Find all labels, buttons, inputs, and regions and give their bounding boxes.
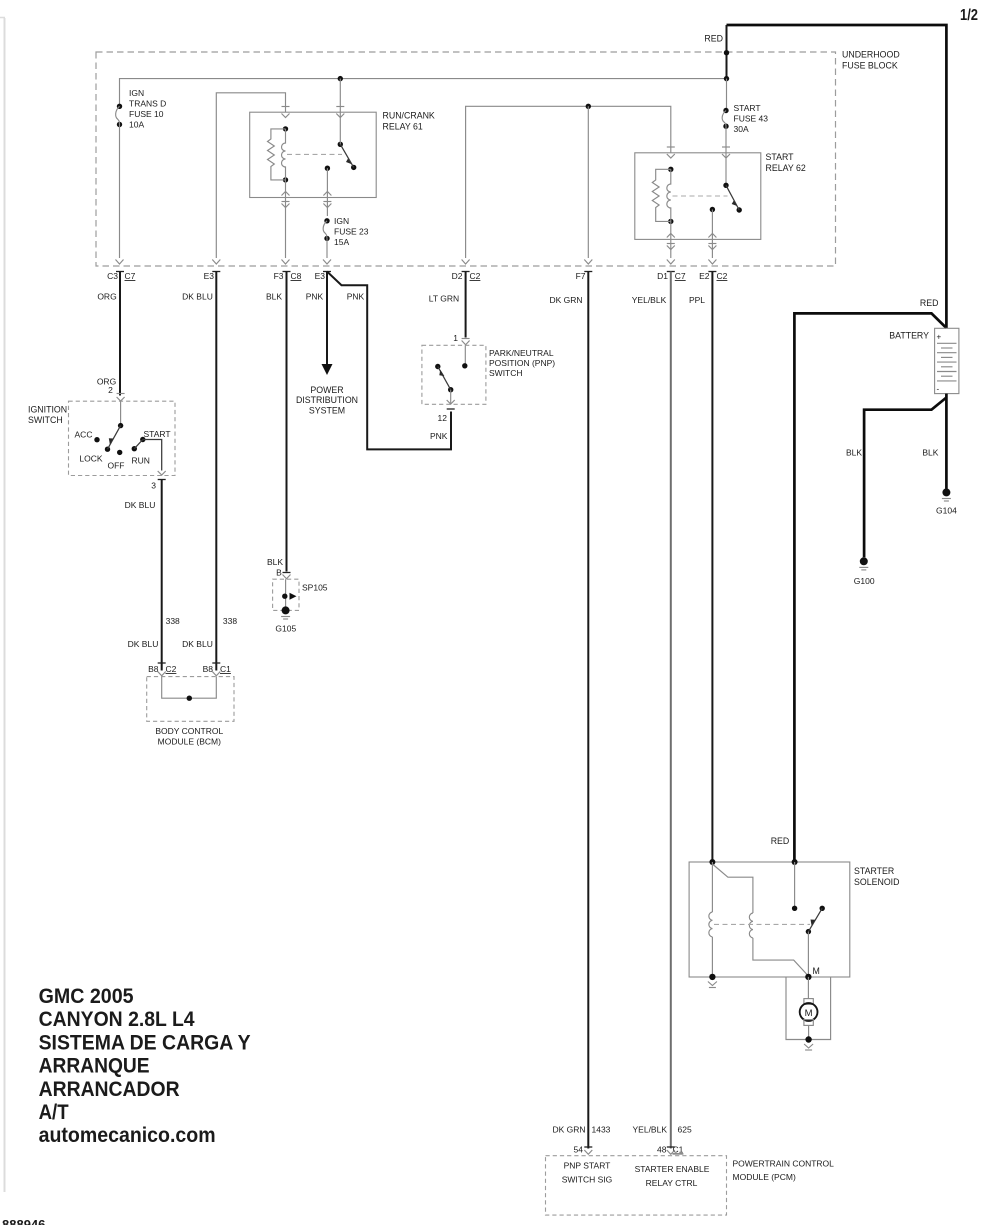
svg-text:FUSE BLOCK: FUSE BLOCK: [842, 61, 898, 71]
svg-text:625: 625: [678, 1125, 692, 1135]
svg-text:RELAY 62: RELAY 62: [766, 163, 806, 173]
wire PNK E3 fuse23 output: [306, 271, 451, 449]
svg-text:YEL/BLK: YEL/BLK: [633, 1125, 668, 1135]
svg-text:E2: E2: [699, 271, 710, 281]
wire RED battery feed (top): [704, 25, 946, 328]
svg-text:3: 3: [151, 481, 156, 491]
svg-text:C2: C2: [470, 271, 481, 281]
node bus to run/crank relay switch: [338, 76, 343, 81]
wire LT GRN D2/C2 to PNP pin 1: [429, 271, 481, 345]
svg-text:BLK: BLK: [267, 557, 283, 567]
svg-text:PPL: PPL: [689, 295, 705, 305]
fuse F10 IGN TRANS D FUSE 10 10A: [116, 88, 167, 258]
svg-text:RED: RED: [771, 836, 790, 846]
svg-text:48: 48: [657, 1145, 667, 1155]
svg-text:888946: 888946: [2, 1217, 45, 1225]
svg-text:PNK: PNK: [347, 292, 365, 302]
svg-text:TRANS D: TRANS D: [129, 99, 166, 109]
svg-text:UNDERHOOD: UNDERHOOD: [842, 50, 900, 60]
wire E3 branch to relay 61 coil: [216, 93, 285, 258]
svg-text:PNK: PNK: [430, 431, 448, 441]
svg-text:D1: D1: [657, 271, 668, 281]
wire BLK battery negative to G104: [922, 394, 946, 489]
splice SP105: [273, 579, 328, 610]
svg-text:10A: 10A: [129, 120, 144, 130]
svg-text:C1: C1: [220, 664, 231, 674]
wire PPL E2/C2 to starter solenoid S terminal: [689, 271, 728, 860]
svg-text:LT GRN: LT GRN: [429, 294, 459, 304]
svg-text:ORG: ORG: [97, 292, 116, 302]
svg-text:DK BLU: DK BLU: [128, 639, 159, 649]
svg-text:BODY CONTROL: BODY CONTROL: [155, 726, 223, 736]
svg-text:START: START: [734, 103, 761, 113]
wire DK BLU 338 E3 to BCM B8/C1: [182, 271, 237, 676]
svg-text:START: START: [766, 152, 795, 162]
svg-text:BATTERY: BATTERY: [889, 330, 929, 340]
svg-text:E3: E3: [315, 271, 326, 281]
svg-text:DK GRN: DK GRN: [549, 295, 582, 305]
svg-text:C2: C2: [166, 664, 177, 674]
svg-text:ORG: ORG: [97, 377, 116, 387]
wire ignition feed bus: [120, 79, 727, 106]
wire YEL/BLK 625 D1/C7 to PCM: [632, 271, 692, 1155]
svg-text:B8: B8: [148, 664, 159, 674]
svg-text:BLK: BLK: [922, 448, 938, 458]
svg-text:C8: C8: [291, 271, 302, 281]
svg-text:C7: C7: [125, 271, 136, 281]
svg-text:B: B: [276, 568, 282, 578]
svg-text:D2: D2: [452, 271, 463, 281]
svg-text:G104: G104: [936, 506, 957, 516]
wire DK GRN 1433 F7 to PCM: [549, 271, 610, 1155]
ground G100: [854, 557, 875, 586]
svg-text:LOCK: LOCK: [79, 454, 102, 464]
svg-text:MODULE (PCM): MODULE (PCM): [733, 1172, 796, 1182]
svg-text:M: M: [813, 966, 820, 976]
svg-text:+: +: [937, 333, 942, 342]
wire RED battery positive to starter solenoid B terminal: [771, 313, 947, 860]
svg-text:SWITCH: SWITCH: [28, 415, 63, 425]
ground G105: [275, 606, 296, 633]
motor ground: [804, 1036, 813, 1050]
battery BT1: [889, 328, 959, 393]
fuse F43 START FUSE 43 30A: [722, 79, 768, 134]
svg-text:PNP START: PNP START: [564, 1161, 611, 1171]
svg-text:G100: G100: [854, 576, 875, 586]
svg-text:FUSE 43: FUSE 43: [734, 114, 769, 124]
module BCM BODY CONTROL MODULE: [147, 677, 234, 747]
svg-text:SWITCH: SWITCH: [489, 368, 523, 378]
svg-text:ARRANCADOR: ARRANCADOR: [39, 1077, 180, 1101]
svg-text:SOLENOID: SOLENOID: [854, 877, 899, 887]
svg-text:DK GRN: DK GRN: [552, 1125, 585, 1135]
svg-text:YEL/BLK: YEL/BLK: [632, 295, 667, 305]
svg-text:C2: C2: [717, 271, 728, 281]
svg-text:FUSE 10: FUSE 10: [129, 109, 164, 119]
svg-text:F7: F7: [576, 271, 586, 281]
svg-text:FUSE 23: FUSE 23: [334, 227, 369, 237]
svg-text:C7: C7: [675, 271, 686, 281]
node M terminal: [805, 974, 811, 980]
ignition switch S1: [28, 401, 175, 490]
fuse F23 IGN FUSE 23 15A: [323, 216, 369, 258]
svg-text:338: 338: [166, 616, 180, 626]
svg-text:1: 1: [453, 333, 458, 343]
svg-text:ACC: ACC: [75, 430, 93, 440]
svg-text:DK BLU: DK BLU: [125, 500, 156, 510]
svg-text:SP105: SP105: [302, 583, 328, 593]
svg-text:12: 12: [438, 413, 448, 423]
svg-text:SWITCH SIG: SWITCH SIG: [562, 1175, 613, 1185]
svg-text:IGNITION: IGNITION: [28, 405, 67, 415]
wire DK BLU 338 ignition pin3 to BCM B8/C2: [125, 480, 180, 676]
switch S2 PARK/NEUTRAL POSITION (PNP) SWITCH: [422, 345, 555, 441]
svg-text:1433: 1433: [592, 1125, 611, 1135]
svg-text:54: 54: [574, 1145, 584, 1155]
svg-text:SYSTEM: SYSTEM: [309, 406, 345, 416]
svg-text:RED: RED: [920, 298, 939, 308]
solenoid case ground: [708, 974, 717, 988]
svg-text:STARTER ENABLE: STARTER ENABLE: [635, 1164, 710, 1174]
svg-text:RELAY 61: RELAY 61: [383, 122, 423, 132]
svg-text:2: 2: [108, 385, 113, 395]
svg-text:SISTEMA DE CARGA Y: SISTEMA DE CARGA Y: [39, 1030, 251, 1054]
svg-text:DISTRIBUTION: DISTRIBUTION: [296, 395, 358, 405]
wire BLK battery negative to G100: [846, 398, 946, 558]
svg-text:A/T: A/T: [39, 1100, 69, 1124]
svg-text:DK BLU: DK BLU: [182, 292, 213, 302]
svg-text:CANYON 2.8L L4: CANYON 2.8L L4: [39, 1007, 195, 1031]
svg-text:automecanico.com: automecanico.com: [39, 1123, 216, 1147]
svg-text:RED: RED: [704, 34, 723, 44]
svg-text:M: M: [805, 1008, 813, 1019]
svg-text:B8: B8: [203, 664, 214, 674]
title block: [39, 984, 251, 1147]
svg-text:RUN/CRANK: RUN/CRANK: [383, 111, 435, 121]
svg-text:30A: 30A: [734, 124, 749, 134]
svg-text:C3: C3: [107, 271, 118, 281]
svg-text:F3: F3: [274, 271, 284, 281]
wire relay 62 coil feed: [466, 106, 671, 258]
svg-text:OFF: OFF: [108, 461, 125, 471]
svg-text:PNK: PNK: [306, 292, 324, 302]
arrow to power distribution system: [296, 272, 358, 416]
svg-text:POWERTRAIN CONTROL: POWERTRAIN CONTROL: [733, 1158, 835, 1168]
node RED at fuse block entry: [724, 50, 729, 81]
svg-text:BLK: BLK: [846, 448, 862, 458]
svg-text:POWER: POWER: [310, 385, 343, 395]
module PCM POWERTRAIN CONTROL MODULE: [546, 1156, 835, 1215]
starter motor M1: [786, 977, 831, 1040]
svg-text:338: 338: [223, 616, 237, 626]
ground G104: [936, 488, 957, 515]
svg-text:PARK/NEUTRAL: PARK/NEUTRAL: [489, 348, 554, 358]
svg-text:IGN: IGN: [129, 88, 144, 98]
svg-text:RUN: RUN: [131, 456, 149, 466]
underhood fuse block (dashed enclosure): [96, 50, 900, 267]
svg-text:C1: C1: [673, 1145, 684, 1155]
svg-text:IGN: IGN: [334, 216, 349, 226]
svg-text:G105: G105: [275, 624, 296, 634]
svg-text:GMC 2005: GMC 2005: [39, 984, 134, 1008]
svg-text:15A: 15A: [334, 237, 349, 247]
wire BLK F3/C8 to SP105: [266, 271, 302, 579]
connector exits at fuse block bottom edge: [116, 260, 717, 265]
svg-text:BLK: BLK: [266, 292, 282, 302]
svg-text:E3: E3: [204, 271, 215, 281]
page number 1/2: [960, 7, 978, 24]
wire ORG C3/C7 to ignition switch: [97, 271, 136, 401]
svg-text:MODULE (BCM): MODULE (BCM): [158, 737, 221, 747]
svg-text:START: START: [144, 429, 171, 439]
svg-text:STARTER: STARTER: [854, 866, 894, 876]
svg-text:-: -: [937, 385, 940, 394]
svg-text:DK BLU: DK BLU: [182, 639, 213, 649]
svg-text:1/2: 1/2: [960, 7, 978, 24]
svg-text:ARRANQUE: ARRANQUE: [39, 1054, 150, 1078]
starter solenoid: [689, 859, 899, 977]
svg-text:POSITION (PNP): POSITION (PNP): [489, 358, 555, 368]
svg-text:RELAY CTRL: RELAY CTRL: [646, 1178, 698, 1188]
relay U62 START RELAY 62: [635, 126, 806, 258]
node F7 branch: [586, 104, 591, 258]
relay U61 RUN/CRANK RELAY 61: [250, 79, 435, 258]
